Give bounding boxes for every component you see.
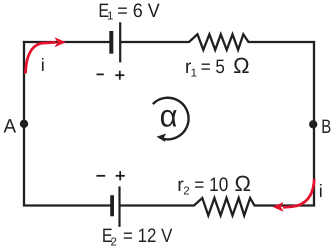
svg-text:Ω: Ω xyxy=(235,171,251,196)
svg-text:= 10: = 10 xyxy=(194,174,228,196)
svg-text:A: A xyxy=(4,115,17,137)
svg-text:α: α xyxy=(160,99,178,134)
svg-text:i: i xyxy=(41,55,45,75)
svg-text:Ω: Ω xyxy=(233,53,249,78)
svg-text:2: 2 xyxy=(183,185,189,197)
svg-text:i: i xyxy=(319,181,323,201)
svg-text:1: 1 xyxy=(191,67,197,79)
svg-text:= 6 V: = 6 V xyxy=(117,0,159,22)
svg-text:= 5: = 5 xyxy=(201,56,225,78)
svg-text:= 12 V: = 12 V xyxy=(123,225,172,247)
svg-text:2: 2 xyxy=(111,237,117,247)
svg-text:B: B xyxy=(321,116,331,138)
svg-text:1: 1 xyxy=(107,10,113,22)
